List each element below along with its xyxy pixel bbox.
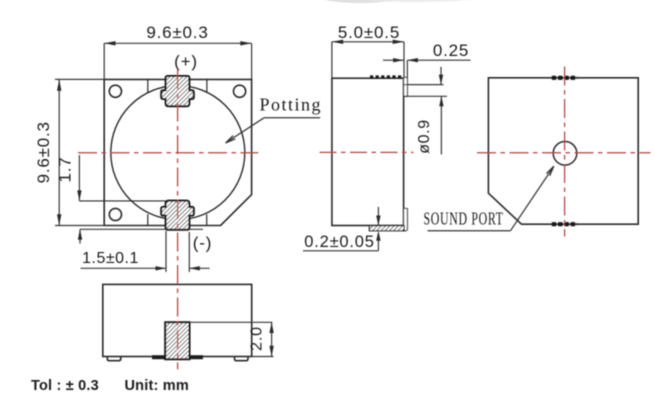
svg-text:Tol : ± 0.3: Tol : ± 0.3 <box>31 378 99 394</box>
svg-text:SOUND PORT: SOUND PORT <box>424 209 504 229</box>
dims of side view <box>303 42 471 251</box>
dim 5.0 line <box>332 41 404 43</box>
centerline horizontal side view <box>320 151 414 153</box>
mounting hole bottom-left <box>109 208 121 220</box>
leader 0.2 upper arrow stem <box>377 207 379 226</box>
dim 9.6 vertical: dimension line <box>58 79 60 225</box>
dim 1.7: lower reference line (electrode bottom) <box>80 228 203 230</box>
bottom lip <box>404 209 408 231</box>
svg-text:(+): (+) <box>174 52 198 71</box>
svg-text:5.0±0.5: 5.0±0.5 <box>338 23 400 42</box>
centerline horizontal back view <box>477 152 651 154</box>
electrode (-) bottom, hatched <box>161 201 194 230</box>
dim 9.6 vertical: extension lines <box>55 78 104 80</box>
left foot <box>107 357 121 361</box>
texts side view <box>304 23 469 251</box>
tick top-right <box>206 79 208 91</box>
svg-text:Potting: Potting <box>260 95 323 115</box>
svg-text:9.6±0.3: 9.6±0.3 <box>34 121 53 183</box>
centerline horizontal top view <box>78 152 258 154</box>
top edge scan smudge <box>322 0 480 3</box>
dim 1.5: extension lines <box>165 231 167 272</box>
svg-text:1.5±0.1: 1.5±0.1 <box>82 250 139 267</box>
dim phi0.9 extension lines <box>407 84 443 86</box>
top rim dotted strip <box>370 75 404 78</box>
dim phi0.9 arrow stems <box>440 67 442 85</box>
tick bottom-right <box>206 214 208 225</box>
leader 0.2 lower: stem and underline <box>377 233 379 251</box>
top lip 0.25 <box>404 78 408 97</box>
bottom adhesive strip 0.2, hatched <box>369 226 404 231</box>
pad mark bottom edge <box>552 222 577 226</box>
mounting hole top-left <box>109 85 121 97</box>
front view body <box>103 284 252 356</box>
chord line for 1.7 dim <box>79 200 165 202</box>
svg-text:9.6±0.3: 9.6±0.3 <box>146 23 208 42</box>
sound port hole <box>553 142 577 166</box>
svg-text:Unit: mm: Unit: mm <box>125 378 189 394</box>
back view body with chamfered bottom-left corner <box>488 78 638 224</box>
centerline vertical back view <box>564 67 566 237</box>
svg-text:2.0: 2.0 <box>249 326 266 351</box>
tick bottom-left <box>147 214 149 225</box>
right foot <box>235 357 249 361</box>
central pad front view, hatched <box>165 322 189 359</box>
electrode (+) top, hatched <box>161 76 194 106</box>
texts for top view <box>34 23 212 267</box>
side view body <box>332 78 404 225</box>
dim 9.6 horizontal: dimension line <box>104 42 251 44</box>
mounting hole top-right <box>234 85 246 97</box>
dim 1.5: dimension lines <box>81 267 166 269</box>
lip divider at sound hole top <box>404 84 408 86</box>
dim 2.0 <box>189 322 273 356</box>
dim 0.25 lines <box>383 59 404 61</box>
top view body outline with chamfered bottom-right corner <box>104 79 251 225</box>
svg-text:1.7: 1.7 <box>56 156 75 182</box>
dimension arrowheads top view <box>57 41 252 270</box>
dim 9.6 horizontal: extension lines <box>103 43 105 79</box>
centerline vertical top+front views <box>177 70 179 369</box>
tick top-left <box>147 79 149 92</box>
svg-text:(-): (-) <box>193 234 212 253</box>
dim 1.7: dimension lines above/below <box>78 155 80 201</box>
pad mark top edge <box>552 76 577 80</box>
svg-text:0.2±0.05: 0.2±0.05 <box>304 233 375 251</box>
solder pad thick segments <box>152 355 203 359</box>
SOUND PORT label and leader <box>424 166 554 231</box>
potting circle <box>111 86 245 220</box>
dim 5.0 extension lines <box>331 42 333 78</box>
svg-text:ø0.9: ø0.9 <box>416 119 433 153</box>
Potting label and leader <box>226 95 322 143</box>
svg-text:0.25: 0.25 <box>433 41 469 60</box>
